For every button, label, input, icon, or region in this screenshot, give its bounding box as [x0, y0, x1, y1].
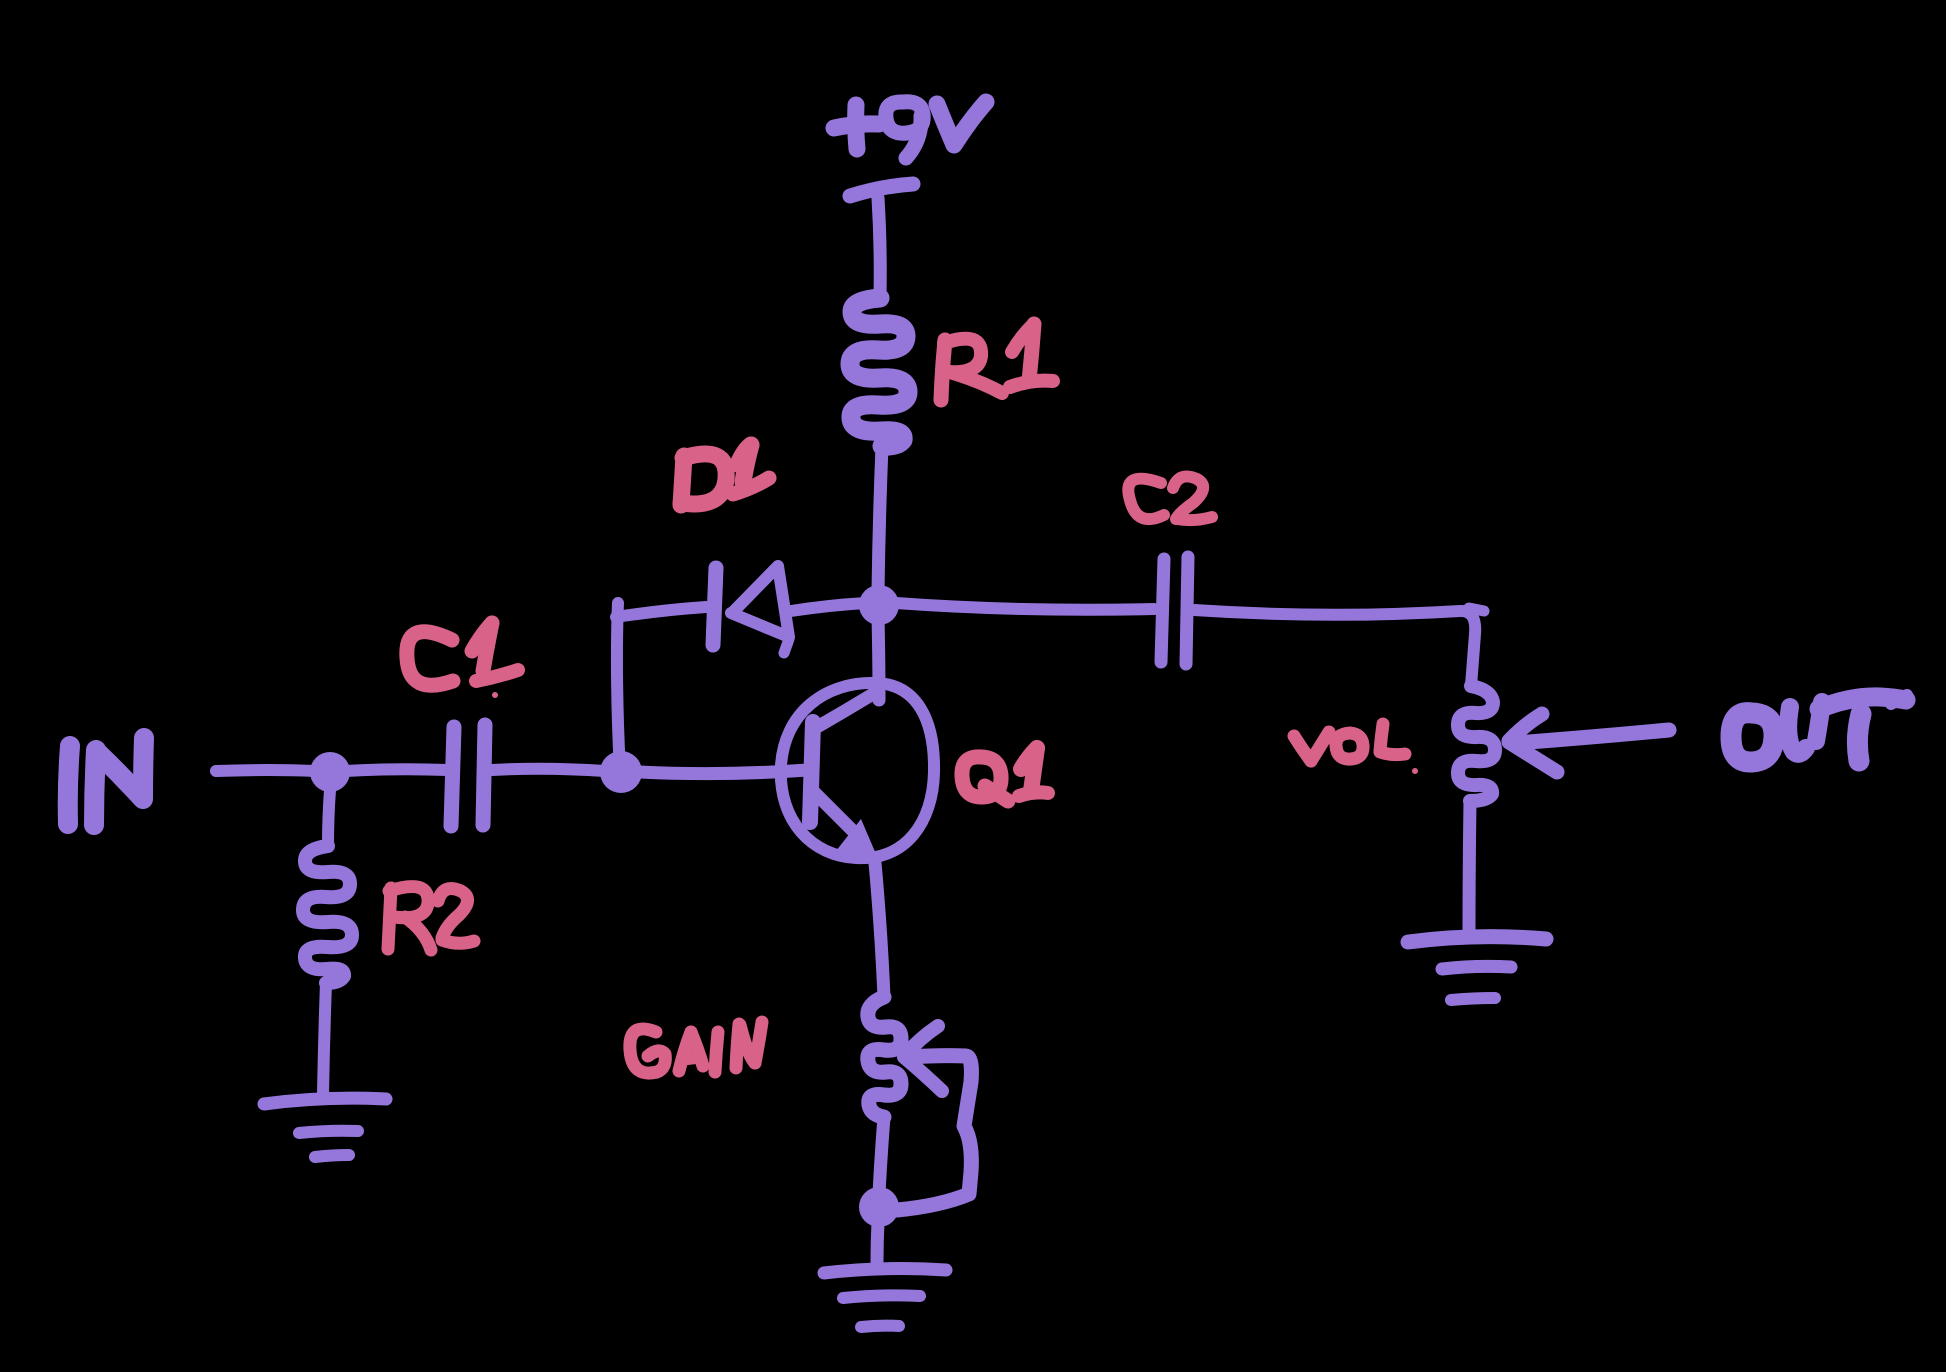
label R1 — [941, 324, 1053, 400]
wire base node to Q1 base — [640, 770, 808, 774]
label OUT — [1731, 695, 1907, 762]
label Q1 — [962, 748, 1048, 801]
wire Q1 emitter down to GAIN pot — [875, 863, 884, 997]
label GAIN — [630, 1022, 762, 1073]
GAIN wiper arrow — [897, 1026, 971, 1210]
label IN — [68, 738, 144, 825]
wire collector node to C2 — [896, 603, 1154, 610]
wire input node down to R2 — [328, 790, 330, 846]
diode D1 — [713, 566, 789, 653]
node input junction — [310, 752, 350, 792]
ground (GAIN) — [824, 1269, 946, 1327]
potentiometer VOL — [1458, 686, 1495, 801]
resistor R1 — [850, 298, 908, 446]
+9V supply rail symbol — [850, 184, 913, 297]
VOL wiper arrow — [1509, 714, 1669, 772]
label C2 — [1128, 476, 1212, 520]
wire GAIN to emitter ground node — [879, 1117, 884, 1193]
wire IN lead — [216, 770, 315, 771]
node collector junction — [859, 585, 899, 625]
wire C2 to corner and down to VOL — [1194, 610, 1475, 686]
wire base branch up and over to D1 cathode — [617, 603, 620, 770]
wire VOL to ground — [1469, 801, 1470, 933]
ground (R2) — [264, 1098, 386, 1157]
label +9V — [834, 102, 986, 158]
ground (VOL) — [1408, 937, 1546, 1000]
wire C1 to base node — [492, 769, 605, 771]
wire input node to C1 — [345, 769, 448, 771]
wire R2 to ground — [323, 983, 326, 1094]
label VOL — [1294, 724, 1418, 774]
wire D1 anode to collector node — [791, 603, 866, 611]
label D1 — [681, 445, 769, 505]
node emitter ground junction — [859, 1187, 899, 1227]
label C1 — [407, 623, 518, 698]
transistor Q1 — [781, 683, 934, 861]
node base junction — [600, 751, 642, 793]
capacitor C2 — [1161, 557, 1188, 664]
wire R1 to collector node — [878, 446, 882, 592]
potentiometer GAIN — [868, 997, 901, 1117]
capacitor C1 — [451, 725, 485, 826]
wire collector node down to Q1 — [878, 616, 879, 700]
wire node to ground (GAIN) — [877, 1222, 878, 1262]
label R2 — [388, 887, 474, 950]
resistor R2 — [303, 846, 352, 983]
